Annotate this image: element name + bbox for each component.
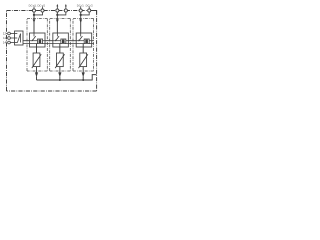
plug contact bottom module 1 bbox=[35, 72, 38, 77]
wire terminal to disconnector module 3 bbox=[80, 12, 82, 33]
terminal 11 bbox=[8, 37, 15, 40]
wire disconnector to varistor module 2 bbox=[59, 44, 61, 53]
node terminal junction module 3 bbox=[80, 14, 82, 16]
wire plug to PE bus module 2 bbox=[59, 76, 61, 80]
terminal feed-through left (arrow) bbox=[56, 4, 59, 12]
terminal 14 bbox=[8, 41, 15, 44]
wire border corner top-right solid bbox=[91, 11, 97, 15]
disconnector coupling line upper bbox=[23, 40, 94, 42]
svg-text:DC-/2: DC-/2 bbox=[86, 4, 94, 7]
thermal disconnector / SCI device box module 1 bbox=[30, 33, 46, 47]
PE bus wire bbox=[37, 75, 97, 80]
wire plug to PE bus module 1 bbox=[36, 76, 38, 80]
plug contact top module 2 bbox=[56, 19, 59, 23]
wire terminal bridge module 2 bbox=[57, 12, 66, 15]
terminal DC+/2 bbox=[41, 6, 44, 12]
terminal 12 bbox=[8, 32, 15, 35]
varistor RV2 bbox=[55, 53, 64, 68]
module 3 compartment box bbox=[73, 19, 94, 72]
module 2 compartment box bbox=[50, 19, 71, 72]
wire disconnector to varistor module 3 bbox=[82, 44, 84, 53]
svg-text:14: 14 bbox=[3, 41, 7, 45]
wire terminal bridge module 1 bbox=[34, 12, 43, 15]
fuse module 3 bbox=[84, 39, 89, 44]
wire terminal bridge module 3 bbox=[81, 12, 90, 15]
svg-text:DC-/1: DC-/1 bbox=[77, 4, 85, 7]
plug contact top module 1 bbox=[33, 19, 36, 23]
device outer border (phantom dash-dot) bbox=[7, 11, 97, 92]
node bus-module2 bbox=[59, 79, 61, 81]
node terminal junction module 2 bbox=[56, 14, 58, 16]
node terminal junction module 1 bbox=[33, 14, 35, 16]
wire disconnector to varistor module 1 bbox=[36, 44, 38, 53]
wire terminal to disconnector module 2 bbox=[56, 12, 58, 33]
svg-text:11: 11 bbox=[3, 36, 6, 40]
disconnector coupling line lower bbox=[23, 43, 94, 45]
varistor RV1 bbox=[32, 53, 41, 68]
thermal disconnector / SCI device box module 3 bbox=[76, 33, 92, 47]
plug contact bottom module 3 bbox=[82, 72, 85, 77]
svg-text:DC+/2: DC+/2 bbox=[37, 4, 45, 7]
svg-text:12: 12 bbox=[3, 32, 7, 36]
fuse module 1 bbox=[38, 39, 43, 44]
plug contact top module 3 bbox=[79, 19, 82, 23]
wire varistor to plug module 3 bbox=[82, 67, 84, 73]
terminal DC-/2 bbox=[88, 6, 91, 12]
fuse module 2 bbox=[61, 39, 66, 44]
terminal DC-/1 bbox=[79, 6, 82, 12]
varistor RV3 bbox=[79, 53, 88, 68]
terminal feed-through right (arrow) bbox=[64, 4, 67, 12]
module 1 compartment box bbox=[27, 19, 47, 72]
node bus-module3 bbox=[82, 79, 84, 81]
wire plug to PE bus module 3 bbox=[82, 76, 84, 80]
thermal disconnector / SCI device box module 2 bbox=[53, 33, 69, 47]
FM remote signalling contact K1 bbox=[15, 31, 24, 45]
terminal DC+/1 bbox=[32, 6, 35, 12]
wire varistor to plug module 2 bbox=[59, 67, 61, 73]
svg-text:DC+/1: DC+/1 bbox=[29, 4, 37, 7]
wire terminal to disconnector module 1 bbox=[33, 12, 35, 33]
plug contact bottom module 2 bbox=[58, 72, 61, 77]
wire varistor to plug module 1 bbox=[36, 67, 38, 73]
